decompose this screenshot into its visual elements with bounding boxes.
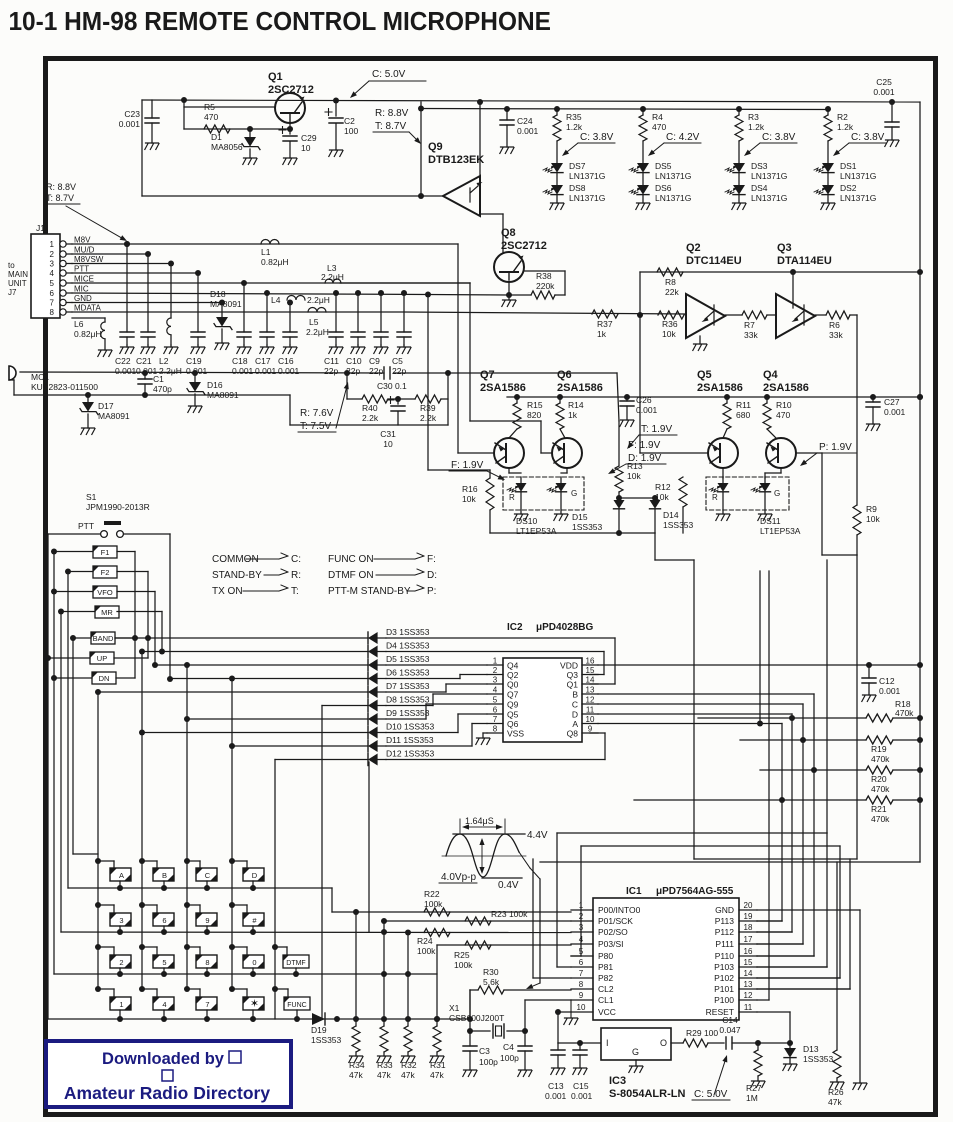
svg-text:LN1371G: LN1371G — [751, 171, 787, 181]
svg-text:B: B — [162, 871, 167, 880]
svg-text:7: 7 — [493, 715, 498, 724]
svg-text:R: R — [712, 493, 718, 502]
svg-text:2SC2712: 2SC2712 — [501, 240, 547, 252]
svg-text:0.001: 0.001 — [571, 1091, 593, 1101]
svg-text:R30: R30 — [483, 967, 499, 977]
svg-text:18: 18 — [744, 923, 753, 932]
svg-text:F: 1.9V: F: 1.9V — [628, 440, 661, 451]
svg-text:1: 1 — [579, 901, 584, 910]
svg-text:M8VSW: M8VSW — [74, 255, 104, 264]
svg-text:5: 5 — [162, 958, 166, 967]
svg-text:μPD7564AG-555: μPD7564AG-555 — [656, 886, 734, 897]
svg-text:DS1: DS1 — [840, 161, 857, 171]
svg-text:C9: C9 — [369, 356, 380, 366]
svg-text:100: 100 — [344, 126, 358, 136]
svg-text:R36: R36 — [662, 319, 678, 329]
svg-text:GND: GND — [715, 905, 734, 915]
svg-text:Q8: Q8 — [501, 227, 516, 239]
svg-text:P80: P80 — [598, 951, 613, 961]
svg-text:P03/SI: P03/SI — [598, 939, 624, 949]
svg-text:G: G — [571, 489, 577, 498]
svg-text:R24: R24 — [417, 936, 433, 946]
svg-text:DTMF ON: DTMF ON — [328, 570, 374, 581]
svg-text:R22: R22 — [424, 889, 440, 899]
svg-text:STAND-BY: STAND-BY — [212, 570, 262, 581]
svg-text:14: 14 — [586, 676, 595, 685]
svg-text:LN1371G: LN1371G — [840, 193, 876, 203]
svg-text:Downloaded by: Downloaded by — [102, 1050, 225, 1068]
svg-text:C13: C13 — [548, 1081, 564, 1091]
svg-text:C22: C22 — [115, 356, 131, 366]
svg-text:22p: 22p — [369, 366, 383, 376]
svg-text:4.4V: 4.4V — [527, 830, 548, 841]
svg-text:12: 12 — [744, 991, 753, 1000]
svg-text:R21: R21 — [871, 804, 887, 814]
svg-text:P01/SCK: P01/SCK — [598, 916, 633, 926]
svg-text:T: 8.7V: T: 8.7V — [46, 193, 74, 203]
svg-text:0.001: 0.001 — [255, 366, 277, 376]
svg-text:Q3: Q3 — [567, 670, 579, 680]
svg-text:0.001: 0.001 — [517, 126, 539, 136]
svg-text:33k: 33k — [744, 330, 758, 340]
svg-text:Q9: Q9 — [507, 700, 519, 710]
svg-text:2.2μH: 2.2μH — [306, 327, 329, 337]
svg-text:DN: DN — [99, 674, 110, 683]
svg-text:DS4: DS4 — [751, 183, 768, 193]
svg-text:100k: 100k — [424, 899, 443, 909]
svg-text:3: 3 — [119, 916, 123, 925]
svg-text:1.64μS: 1.64μS — [465, 816, 494, 826]
svg-text:20: 20 — [744, 901, 753, 910]
svg-text:S1: S1 — [86, 492, 97, 502]
svg-text:Q7: Q7 — [507, 690, 519, 700]
svg-text:M8V: M8V — [74, 236, 91, 245]
svg-text:R4: R4 — [652, 112, 663, 122]
svg-text:C10: C10 — [346, 356, 362, 366]
svg-text:1.2k: 1.2k — [748, 122, 765, 132]
svg-text:9: 9 — [588, 725, 593, 734]
svg-text:C5: C5 — [392, 356, 403, 366]
svg-text:D1: D1 — [211, 132, 222, 142]
svg-text:7: 7 — [579, 969, 584, 978]
svg-text:2SC2712: 2SC2712 — [268, 84, 314, 96]
svg-text:MA8091: MA8091 — [210, 299, 242, 309]
svg-text:5: 5 — [579, 947, 584, 956]
svg-text:VSS: VSS — [507, 729, 524, 739]
svg-text:1: 1 — [493, 657, 498, 666]
svg-text:O: O — [660, 1038, 667, 1048]
svg-text:47k: 47k — [430, 1070, 444, 1080]
svg-text:C12: C12 — [879, 676, 895, 686]
svg-text:8: 8 — [579, 980, 584, 989]
svg-text:GND: GND — [74, 294, 92, 303]
svg-text:C29: C29 — [301, 133, 317, 143]
svg-text:D17: D17 — [98, 401, 114, 411]
svg-text:L1: L1 — [261, 247, 271, 257]
svg-text:R31: R31 — [430, 1060, 446, 1070]
svg-text:L6: L6 — [74, 319, 84, 329]
svg-text:15: 15 — [744, 958, 753, 967]
svg-text:TX ON: TX ON — [212, 586, 243, 597]
svg-text:R15: R15 — [527, 400, 543, 410]
svg-text:LN1371G: LN1371G — [655, 193, 691, 203]
svg-text:C27: C27 — [884, 397, 900, 407]
svg-text:F:: F: — [427, 554, 436, 565]
svg-text:D:: D: — [427, 570, 437, 581]
svg-text:B: B — [572, 690, 578, 700]
svg-text:I: I — [606, 1038, 609, 1048]
svg-text:1SS353: 1SS353 — [803, 1054, 834, 1064]
svg-text:0.047: 0.047 — [719, 1025, 741, 1035]
svg-text:6: 6 — [162, 916, 166, 925]
svg-text:4.0Vp-p: 4.0Vp-p — [441, 872, 476, 883]
svg-text:R20: R20 — [871, 774, 887, 784]
svg-text:P101: P101 — [714, 984, 734, 994]
svg-text:P110: P110 — [715, 951, 734, 961]
svg-text:2: 2 — [493, 666, 498, 675]
svg-text:0.001: 0.001 — [545, 1091, 567, 1101]
svg-text:D18: D18 — [210, 289, 226, 299]
svg-text:0.001: 0.001 — [119, 119, 141, 129]
svg-text:PTT: PTT — [74, 265, 89, 274]
svg-text:DS2: DS2 — [840, 183, 857, 193]
svg-text:1.2k: 1.2k — [566, 122, 583, 132]
svg-text:C: 3.8V: C: 3.8V — [762, 132, 796, 143]
svg-text:2.2k: 2.2k — [362, 413, 379, 423]
svg-text:680: 680 — [736, 410, 750, 420]
svg-text:R27: R27 — [746, 1083, 762, 1093]
svg-text:LT1EP53A: LT1EP53A — [516, 526, 557, 536]
svg-text:C: C — [572, 700, 578, 710]
svg-text:100p: 100p — [479, 1057, 498, 1067]
svg-text:0.82μH: 0.82μH — [74, 329, 102, 339]
svg-text:4: 4 — [162, 1000, 166, 1009]
svg-text:22p: 22p — [324, 366, 338, 376]
svg-text:P82: P82 — [598, 973, 613, 983]
svg-text:C: 3.8V: C: 3.8V — [851, 132, 885, 143]
svg-text:Q4: Q4 — [763, 369, 779, 381]
svg-text:C: C — [205, 871, 211, 880]
svg-text:C3: C3 — [479, 1046, 490, 1056]
svg-text:μPD4028BG: μPD4028BG — [536, 622, 593, 633]
svg-text:✶: ✶ — [250, 998, 259, 1010]
svg-text:5: 5 — [50, 279, 55, 288]
svg-text:R:: R: — [291, 570, 301, 581]
svg-text:R35: R35 — [566, 112, 582, 122]
svg-text:S-8054ALR-LN: S-8054ALR-LN — [609, 1088, 685, 1100]
svg-text:UP: UP — [97, 654, 107, 663]
svg-text:C15: C15 — [573, 1081, 589, 1091]
svg-text:220k: 220k — [536, 281, 555, 291]
svg-text:C16: C16 — [278, 356, 294, 366]
svg-text:P: 1.9V: P: 1.9V — [819, 442, 852, 453]
svg-text:C24: C24 — [517, 116, 533, 126]
svg-text:DTMF: DTMF — [286, 960, 305, 967]
svg-text:MICE: MICE — [74, 275, 94, 284]
svg-text:0.001: 0.001 — [232, 366, 254, 376]
svg-text:100k: 100k — [454, 960, 473, 970]
svg-text:2SA1586: 2SA1586 — [480, 382, 526, 394]
svg-text:MIC: MIC — [74, 285, 89, 294]
svg-text:820: 820 — [527, 410, 541, 420]
svg-text:DS11: DS11 — [760, 516, 781, 526]
svg-text:C19: C19 — [186, 356, 202, 366]
svg-text:DS8: DS8 — [569, 183, 586, 193]
svg-text:R16: R16 — [462, 484, 478, 494]
svg-text:D13: D13 — [803, 1044, 819, 1054]
svg-text:0.001: 0.001 — [884, 407, 906, 417]
svg-text:D15: D15 — [572, 512, 588, 522]
svg-text:A: A — [572, 719, 578, 729]
svg-text:2.2μH: 2.2μH — [321, 272, 344, 282]
svg-text:MU/D: MU/D — [74, 246, 95, 255]
svg-text:10k: 10k — [627, 471, 641, 481]
svg-text:Q6: Q6 — [557, 369, 572, 381]
svg-text:11: 11 — [744, 1003, 753, 1012]
svg-text:8: 8 — [205, 958, 209, 967]
svg-text:DS6: DS6 — [655, 183, 672, 193]
svg-text:22k: 22k — [665, 287, 679, 297]
svg-text:C17: C17 — [255, 356, 271, 366]
svg-text:C: 3.8V: C: 3.8V — [580, 132, 614, 143]
svg-text:10: 10 — [383, 439, 393, 449]
svg-text:Q1: Q1 — [268, 71, 283, 83]
svg-text:UNIT: UNIT — [8, 279, 27, 288]
svg-text:4: 4 — [579, 935, 584, 944]
svg-text:T: 7.5V: T: 7.5V — [300, 421, 331, 432]
svg-text:R11: R11 — [736, 400, 751, 410]
svg-text:D3 1SS353: D3 1SS353 — [386, 627, 430, 637]
svg-text:4: 4 — [50, 269, 55, 278]
svg-text:Q7: Q7 — [480, 369, 495, 381]
svg-text:MA8091: MA8091 — [207, 390, 239, 400]
svg-text:R: 8.8V: R: 8.8V — [375, 108, 409, 119]
svg-text:Q3: Q3 — [777, 242, 792, 254]
svg-text:10-1 HM-98 REMOTE CONTROL MIC: 10-1 HM-98 REMOTE CONTROL MICROPHONE — [8, 7, 550, 36]
svg-text:100p: 100p — [500, 1053, 519, 1063]
svg-text:R10: R10 — [776, 400, 792, 410]
svg-text:PTT-M STAND-BY: PTT-M STAND-BY — [328, 586, 411, 597]
svg-text:0.001: 0.001 — [636, 405, 658, 415]
svg-text:D: 1.9V: D: 1.9V — [628, 453, 662, 464]
svg-text:CL2: CL2 — [598, 984, 614, 994]
svg-text:D10 1SS353: D10 1SS353 — [386, 722, 434, 732]
svg-text:R23 100k: R23 100k — [491, 909, 528, 919]
svg-text:Q5: Q5 — [697, 369, 712, 381]
svg-text:10k: 10k — [462, 494, 476, 504]
svg-text:470: 470 — [652, 122, 666, 132]
svg-text:8: 8 — [493, 725, 498, 734]
svg-text:10: 10 — [577, 1003, 586, 1012]
svg-text:CL1: CL1 — [598, 995, 614, 1005]
svg-text:13: 13 — [744, 980, 753, 989]
svg-text:JPM1990-2013R: JPM1990-2013R — [86, 502, 150, 512]
svg-text:2SA1586: 2SA1586 — [557, 382, 603, 394]
svg-text:Amateur Radio Directory: Amateur Radio Directory — [64, 1083, 270, 1103]
svg-text:C: 5.0V: C: 5.0V — [694, 1089, 728, 1100]
svg-text:J1: J1 — [36, 223, 45, 233]
svg-text:R34: R34 — [349, 1060, 365, 1070]
svg-text:R: 8.8V: R: 8.8V — [46, 182, 76, 192]
svg-text:J7: J7 — [8, 288, 17, 297]
svg-text:470k: 470k — [895, 708, 914, 718]
svg-text:16: 16 — [586, 657, 595, 666]
svg-text:6: 6 — [579, 958, 584, 967]
svg-text:C:: C: — [291, 554, 301, 565]
svg-text:MA8056: MA8056 — [211, 142, 243, 152]
svg-text:IC1: IC1 — [626, 886, 642, 897]
svg-text:17: 17 — [744, 935, 753, 944]
svg-text:R14: R14 — [568, 400, 584, 410]
svg-text:0.001: 0.001 — [278, 366, 300, 376]
svg-text:2: 2 — [50, 250, 55, 259]
svg-text:P103: P103 — [714, 962, 734, 972]
svg-text:Q1: Q1 — [567, 680, 579, 690]
svg-text:2SA1586: 2SA1586 — [763, 382, 809, 394]
svg-text:0: 0 — [252, 958, 256, 967]
svg-text:1: 1 — [119, 1000, 123, 1009]
svg-text:R19: R19 — [871, 744, 887, 754]
svg-text:X1: X1 — [449, 1003, 460, 1013]
svg-text:D7 1SS353: D7 1SS353 — [386, 681, 430, 691]
svg-text:3: 3 — [50, 260, 55, 269]
svg-text:6: 6 — [493, 706, 498, 715]
svg-text:P81: P81 — [598, 962, 613, 972]
svg-text:R8: R8 — [665, 277, 676, 287]
svg-text:MAIN: MAIN — [8, 270, 28, 279]
svg-text:R40: R40 — [362, 403, 378, 413]
svg-text:C14: C14 — [722, 1015, 738, 1025]
svg-text:LT1EP53A: LT1EP53A — [760, 526, 801, 536]
svg-text:DS5: DS5 — [655, 161, 672, 171]
svg-text:KUB2823-011500: KUB2823-011500 — [31, 382, 98, 392]
svg-text:8: 8 — [50, 308, 55, 317]
svg-text:D5 1SS353: D5 1SS353 — [386, 654, 430, 664]
svg-text:BAND: BAND — [93, 634, 114, 643]
svg-text:VFO: VFO — [97, 588, 113, 597]
svg-text:R: 7.6V: R: 7.6V — [300, 408, 334, 419]
svg-text:P113: P113 — [715, 916, 734, 926]
svg-text:F1: F1 — [101, 548, 110, 557]
svg-text:0.001: 0.001 — [873, 87, 895, 97]
svg-text:Q5: Q5 — [507, 710, 519, 720]
svg-text:C4: C4 — [503, 1042, 514, 1052]
svg-text:D12 1SS353: D12 1SS353 — [386, 749, 434, 759]
svg-text:R9: R9 — [866, 504, 877, 514]
svg-text:D6 1SS353: D6 1SS353 — [386, 668, 430, 678]
svg-text:4: 4 — [493, 686, 498, 695]
svg-text:9: 9 — [579, 991, 584, 1000]
svg-text:0.4V: 0.4V — [498, 880, 519, 891]
svg-text:A: A — [119, 871, 124, 880]
svg-text:47k: 47k — [377, 1070, 391, 1080]
svg-text:DS10: DS10 — [516, 516, 538, 526]
svg-text:G: G — [632, 1047, 639, 1057]
svg-text:D11 1SS353: D11 1SS353 — [386, 735, 434, 745]
svg-text:7: 7 — [50, 299, 55, 308]
svg-text:R29 100: R29 100 — [686, 1028, 718, 1038]
svg-text:47k: 47k — [828, 1097, 842, 1107]
svg-text:6: 6 — [50, 289, 55, 298]
svg-text:R5: R5 — [204, 102, 215, 112]
svg-text:R7: R7 — [744, 320, 755, 330]
svg-text:1: 1 — [50, 240, 55, 249]
svg-text:16: 16 — [744, 947, 753, 956]
svg-text:11: 11 — [586, 706, 595, 715]
svg-text:MA8091: MA8091 — [98, 411, 130, 421]
svg-text:C23: C23 — [124, 109, 140, 119]
svg-text:1SS353: 1SS353 — [572, 522, 603, 532]
svg-text:F2: F2 — [101, 568, 110, 577]
svg-text:R6: R6 — [829, 320, 840, 330]
svg-text:FUNC ON: FUNC ON — [328, 554, 374, 565]
svg-text:13: 13 — [586, 686, 595, 695]
svg-text:100k: 100k — [417, 946, 436, 956]
svg-text:P100: P100 — [714, 995, 734, 1005]
svg-text:L2: L2 — [159, 356, 169, 366]
svg-text:LN1371G: LN1371G — [840, 171, 876, 181]
svg-text:470: 470 — [776, 410, 790, 420]
svg-text:FUNC: FUNC — [287, 1002, 306, 1009]
svg-text:10k: 10k — [866, 514, 880, 524]
svg-text:7: 7 — [205, 1000, 209, 1009]
svg-text:D8 1SS353: D8 1SS353 — [386, 695, 430, 705]
svg-text:MC1: MC1 — [31, 372, 49, 382]
svg-text:T: 1.9V: T: 1.9V — [641, 424, 672, 435]
svg-text:470k: 470k — [871, 784, 890, 794]
svg-text:DTC114EU: DTC114EU — [686, 255, 742, 267]
svg-text:R3: R3 — [748, 112, 759, 122]
svg-text:LN1371G: LN1371G — [569, 171, 605, 181]
svg-text:0.82μH: 0.82μH — [261, 257, 289, 267]
svg-text:Q4: Q4 — [507, 661, 519, 671]
svg-text:R25: R25 — [454, 950, 470, 960]
svg-text:T:: T: — [291, 586, 299, 597]
svg-text:12: 12 — [586, 696, 595, 705]
svg-text:DTB123EK: DTB123EK — [428, 154, 484, 166]
svg-text:R: R — [509, 493, 515, 502]
svg-text:to: to — [8, 261, 15, 270]
svg-text:1M: 1M — [746, 1093, 758, 1103]
svg-text:Q8: Q8 — [567, 729, 579, 739]
svg-text:33k: 33k — [829, 330, 843, 340]
svg-text:DTA114EU: DTA114EU — [777, 255, 832, 267]
svg-text:VDD: VDD — [560, 661, 578, 671]
svg-text:14: 14 — [744, 969, 753, 978]
svg-text:LN1371G: LN1371G — [655, 171, 691, 181]
svg-text:L5: L5 — [309, 317, 319, 327]
svg-text:C: 4.2V: C: 4.2V — [666, 132, 700, 143]
svg-text:2: 2 — [119, 958, 123, 967]
svg-text:MDATA: MDATA — [74, 304, 101, 313]
svg-text:1k: 1k — [568, 410, 578, 420]
svg-text:T: 8.7V: T: 8.7V — [375, 121, 406, 132]
svg-text:R32: R32 — [401, 1060, 417, 1070]
svg-text:MR: MR — [101, 608, 113, 617]
svg-text:DS3: DS3 — [751, 161, 768, 171]
svg-text:R2: R2 — [837, 112, 848, 122]
svg-text:C30 0.1: C30 0.1 — [377, 381, 407, 391]
svg-text:IC2: IC2 — [507, 622, 523, 633]
svg-text:D4 1SS353: D4 1SS353 — [386, 641, 430, 651]
svg-text:1SS353: 1SS353 — [311, 1035, 342, 1045]
svg-text:R33: R33 — [377, 1060, 393, 1070]
svg-text:0.001: 0.001 — [115, 366, 137, 376]
svg-text:Q2: Q2 — [507, 670, 519, 680]
svg-text:P:: P: — [427, 586, 436, 597]
svg-text:R38: R38 — [536, 271, 552, 281]
svg-text:47k: 47k — [401, 1070, 415, 1080]
